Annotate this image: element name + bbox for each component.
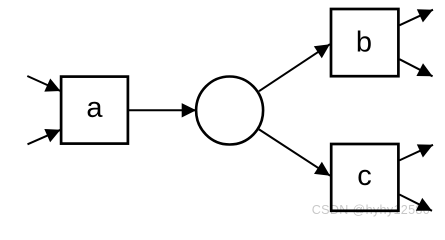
- svg-text:b: b: [356, 27, 372, 59]
- svg-text:CSDN @hyhy12580: CSDN @hyhy12580: [312, 203, 430, 217]
- svg-text:a: a: [86, 92, 103, 124]
- svg-text:c: c: [357, 160, 372, 192]
